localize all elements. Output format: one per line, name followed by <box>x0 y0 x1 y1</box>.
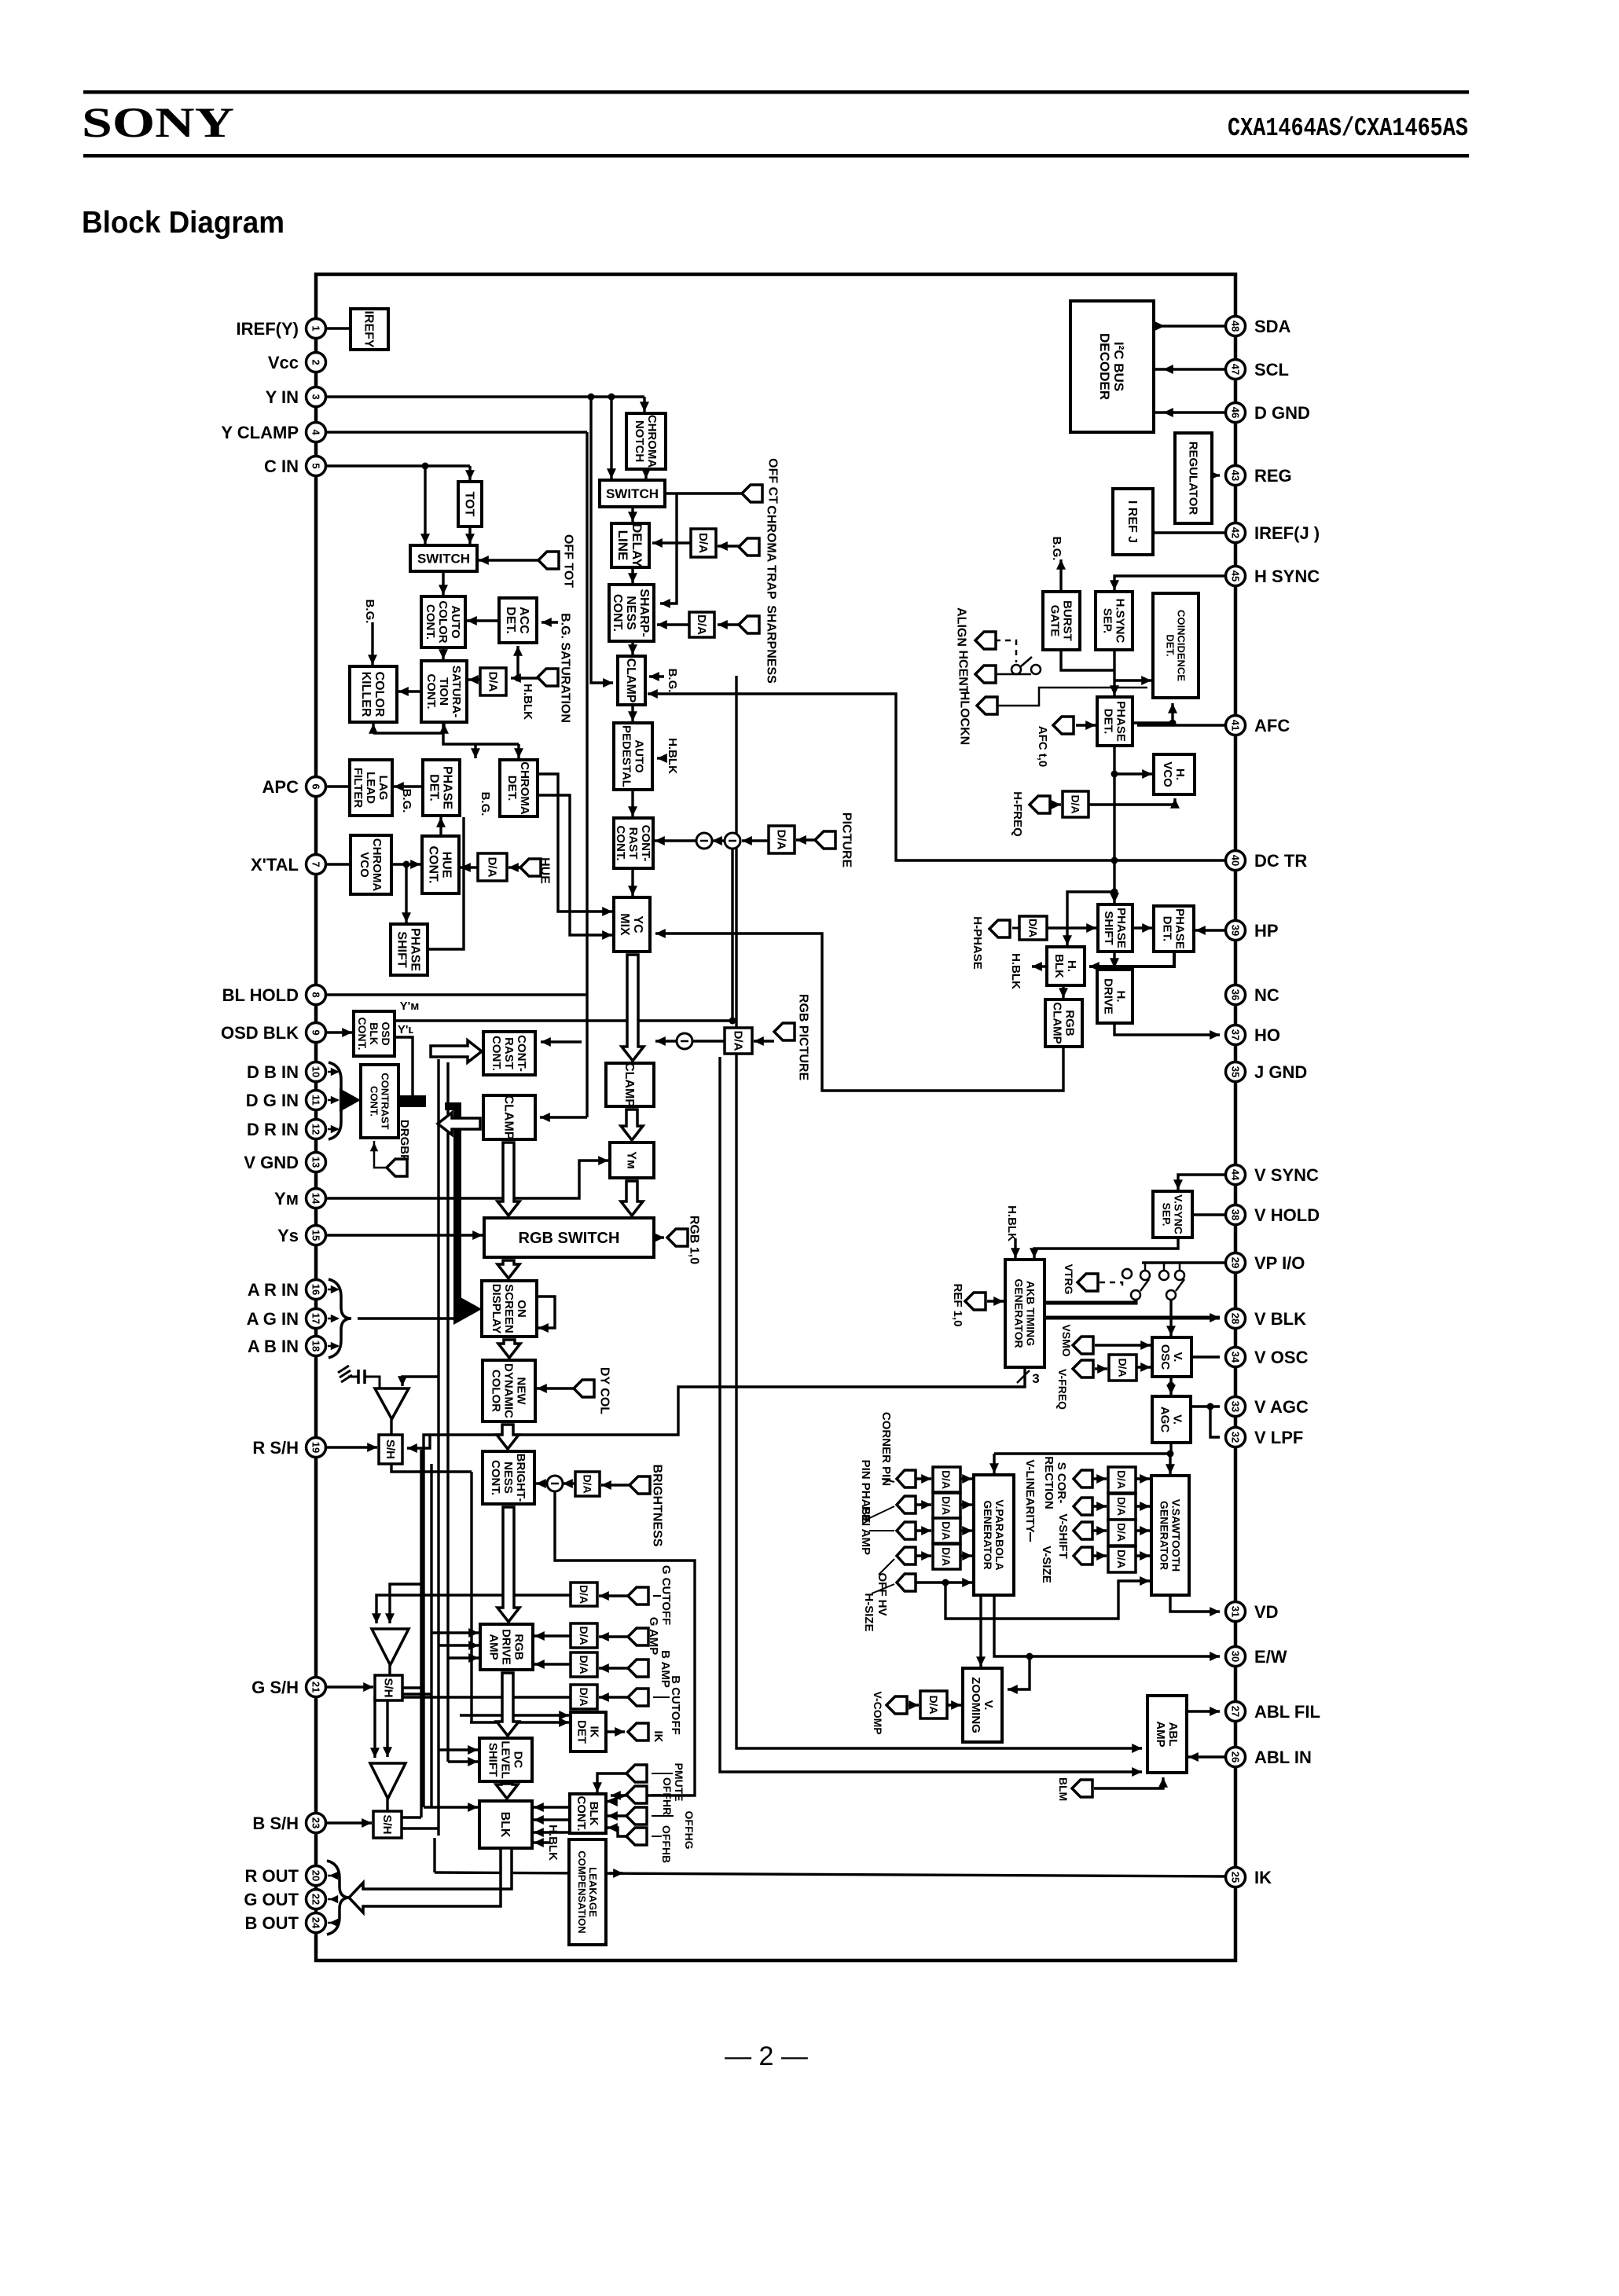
capacitor and ground near triangle 1 <box>338 1366 380 1388</box>
svg-text:G OUT: G OUT <box>244 1890 299 1909</box>
svg-text:AFC t,0: AFC t,0 <box>1036 726 1049 768</box>
wire da-parabola col1 3 <box>960 1551 972 1561</box>
wire Y IN bus <box>326 395 644 398</box>
pin 9 OSD BLK <box>221 1023 326 1043</box>
block D/A stack 2 <box>1108 1467 1136 1572</box>
wire B.G. into color killer <box>368 622 377 665</box>
svg-text:IK: IK <box>1254 1868 1272 1887</box>
svg-text:H.BLK: H.BLK <box>666 738 679 774</box>
wire dc tr loop <box>648 689 1228 860</box>
wire ym line <box>395 1019 732 1021</box>
svg-text:B.G. SATURATION: B.G. SATURATION <box>558 613 571 723</box>
input flag V-COMP <box>887 1696 907 1714</box>
block AUTO COLOR CONT <box>421 596 465 647</box>
block TOT <box>458 482 482 526</box>
wire ikdet in1 <box>460 1711 569 1720</box>
block AKB TIMING GENERATOR <box>1005 1260 1044 1367</box>
tick OFFHG <box>652 1815 674 1817</box>
svg-text:OFF HV: OFF HV <box>876 1573 889 1616</box>
pin 8 BL HOLD <box>222 985 326 1006</box>
leader corner pin <box>882 1479 894 1482</box>
wire pin14 YM <box>326 1156 608 1198</box>
block D/A v-comp <box>920 1691 947 1718</box>
pin 21 G S/H <box>251 1678 325 1698</box>
svg-text:ABLAMP: ABLAMP <box>1154 1721 1180 1747</box>
svg-text:G AMP: G AMP <box>647 1617 660 1656</box>
block BRIGHTNESS CONT <box>483 1451 534 1504</box>
wire DA to saturation cont <box>468 675 480 684</box>
svg-text:B.G.: B.G. <box>666 669 679 693</box>
input flag IK <box>628 1723 648 1740</box>
svg-text:32: 32 <box>1230 1432 1242 1443</box>
svg-text:V-LINEARITY: V-LINEARITY <box>1023 1459 1037 1532</box>
svg-text:14: 14 <box>310 1193 322 1205</box>
wire coincidence in <box>1114 676 1151 685</box>
svg-text:I²C BUSDECODER: I²C BUSDECODER <box>1097 333 1126 400</box>
wire into chroma det top <box>514 744 523 758</box>
pin 13 V GND <box>244 1153 325 1173</box>
wire b amp pent <box>599 1663 628 1673</box>
svg-text:S/H: S/H <box>381 1678 395 1697</box>
thick stub right of contrast cont D <box>399 1095 426 1107</box>
wire Y IN branch to switch <box>607 397 616 479</box>
block D/A hue <box>478 853 507 881</box>
input flag VSMO <box>1073 1337 1093 1354</box>
wire pmute to blk cont <box>593 1773 626 1792</box>
wire contrast2 right input <box>541 1037 582 1047</box>
block HUE CONT <box>422 836 459 893</box>
svg-text:30: 30 <box>1230 1651 1242 1662</box>
svg-text:40: 40 <box>1230 855 1242 866</box>
svg-text:Yᴍ: Yᴍ <box>274 1189 299 1209</box>
wire hblk into akb <box>1011 1238 1020 1258</box>
svg-text:44: 44 <box>1230 1169 1242 1181</box>
svg-text:H-SIZE: H-SIZE <box>862 1593 876 1631</box>
wire OFF TOT to switch <box>479 556 538 565</box>
input flag H-FREQ <box>1030 796 1050 813</box>
wire sum1 to contrast cont <box>655 836 696 845</box>
wire hp pin to phase det2 <box>1195 926 1224 935</box>
hollow arrow RGB SWITCH to OSD <box>497 1260 519 1278</box>
wire clamp mr right input <box>655 1036 677 1046</box>
wire dc shift in1 <box>439 1745 478 1755</box>
block NEW DYNAMIC COLOR <box>483 1360 535 1421</box>
block CLAMP top <box>618 656 645 705</box>
wire akb out thick <box>1044 1300 1136 1303</box>
wire da-parabola col1 2 <box>960 1526 972 1535</box>
block CHROMA NOTCH <box>626 413 666 469</box>
wire pin1 to IREFY <box>326 327 351 329</box>
svg-text:V.PARABOLAGENERATOR: V.PARABOLAGENERATOR <box>982 1499 1006 1570</box>
wire offhg to blk cont <box>608 1811 626 1821</box>
wire hblk into blk <box>534 1838 550 1847</box>
svg-text:TOT: TOT <box>462 492 475 517</box>
bus v9 <box>720 1057 1142 1777</box>
wire abl in to abl <box>1188 1752 1224 1762</box>
wire sh2 out2 <box>402 1693 431 1695</box>
wire switch to auto color cont <box>439 571 448 595</box>
pin 30 E/W <box>1226 1647 1287 1667</box>
svg-text:38: 38 <box>1230 1209 1242 1220</box>
block BLK <box>479 1801 532 1848</box>
wire rgb drive in3 <box>448 1653 479 1663</box>
pin 38 V HOLD <box>1226 1205 1320 1226</box>
wire phase det coincidence <box>1133 703 1177 723</box>
pin 45 H SYNC <box>1226 567 1320 587</box>
block V PARABOLA GENERATOR <box>974 1475 1014 1595</box>
svg-text:19: 19 <box>310 1442 322 1453</box>
svg-text:13: 13 <box>310 1157 322 1168</box>
wire rgb drive in1 <box>431 1628 479 1638</box>
wire scl <box>1154 368 1224 370</box>
svg-text:D G IN: D G IN <box>246 1091 299 1110</box>
block DELAY LINE <box>611 523 649 568</box>
wire da-parabola col1 1 <box>960 1500 972 1509</box>
svg-text:APC: APC <box>262 777 299 797</box>
hollow arrow OSD to NDC <box>498 1340 520 1358</box>
wire abl to abl fil <box>1187 1707 1220 1716</box>
wire hblk top feed <box>1063 892 1114 945</box>
input flag RGB 1,0 <box>667 1216 700 1264</box>
svg-text:21: 21 <box>310 1682 322 1693</box>
block LEAKAGE COMPENSATION <box>569 1839 606 1945</box>
svg-text:G S/H: G S/H <box>251 1678 299 1697</box>
block ACC DET <box>499 598 537 643</box>
svg-text:PICTURE: PICTURE <box>839 812 853 868</box>
wire parabola to zooming <box>976 1595 986 1667</box>
svg-text:CONT-RASTCONT.: CONT-RASTCONT. <box>614 825 652 862</box>
wire pin-da col2 2 <box>1092 1526 1107 1535</box>
wire da-sawtooth col2 2 <box>1136 1526 1150 1535</box>
svg-text:R S/H: R S/H <box>252 1438 299 1458</box>
pentagon column 2 group <box>1074 1470 1092 1564</box>
block I2C BUS DECODER <box>1070 301 1154 432</box>
wire vagc to pin32 <box>1210 1407 1220 1437</box>
wire switch to v osc <box>1166 1300 1176 1336</box>
svg-text:B S/H: B S/H <box>252 1814 299 1833</box>
svg-text:18: 18 <box>310 1341 322 1352</box>
brace RGB OUT <box>327 1861 350 1935</box>
svg-text:1: 1 <box>310 325 322 331</box>
tick OFFHR <box>652 1794 661 1795</box>
input flag PICTURE <box>815 812 853 868</box>
block PHASE DET left <box>423 760 460 816</box>
wire phase det to lag lead <box>394 782 423 791</box>
wire tri1 right top feed <box>398 1376 439 1386</box>
block CONTRAST CONT 1 <box>614 818 653 868</box>
wire vsync sep to vhold <box>1192 1213 1224 1216</box>
svg-text:Yᴍ: Yᴍ <box>624 1151 637 1169</box>
wire hblk into auto pedestal <box>657 754 667 763</box>
wire vsync sep down to akb <box>1030 1238 1178 1258</box>
block S/H 1 <box>379 1435 402 1464</box>
svg-text:D/A: D/A <box>578 1655 590 1674</box>
bus v8 <box>736 676 1142 1753</box>
tick V-LINEARITY <box>1030 1532 1031 1542</box>
pin 42 IREF(J ) <box>1226 523 1320 544</box>
wire blk in1 <box>424 1803 478 1812</box>
svg-text:12: 12 <box>310 1124 322 1135</box>
wire da hfreq to hvco <box>1089 798 1180 809</box>
wire da hphase to phase shift <box>1047 923 1096 933</box>
svg-text:SWITCH: SWITCH <box>417 551 470 566</box>
svg-text:4: 4 <box>310 429 322 435</box>
svg-text:V LPF: V LPF <box>1254 1428 1303 1447</box>
svg-text:H.BLK: H.BLK <box>1009 953 1022 989</box>
pin 22 G OUT <box>244 1890 325 1910</box>
pin 12 D R IN <box>247 1120 326 1140</box>
header top rule <box>83 90 1469 94</box>
block IREFY <box>351 309 388 350</box>
wire da3 to rgb drive <box>534 1660 571 1669</box>
wire g amp pent <box>599 1632 628 1641</box>
svg-text:IREF(Y): IREF(Y) <box>237 319 299 339</box>
block D/A rgb picture <box>725 1028 752 1054</box>
block IK DET <box>571 1712 606 1751</box>
svg-text:23: 23 <box>310 1817 322 1828</box>
block PHASE SHIFT left <box>391 924 428 975</box>
block D/A sharpness <box>689 612 714 637</box>
wire v blk thick <box>1044 1313 1220 1322</box>
svg-text:24: 24 <box>310 1917 322 1929</box>
input flag BLM <box>1072 1780 1092 1797</box>
svg-text:D/A: D/A <box>1115 1550 1128 1568</box>
wire brightness pentagon to DA <box>601 1480 630 1490</box>
svg-text:OFF CT: OFF CT <box>765 458 779 504</box>
input flag BG SATURATION <box>538 613 571 723</box>
wire h-size branch <box>945 1576 1150 1619</box>
block D/A h-freq <box>1063 791 1089 817</box>
pin 11 D G IN <box>246 1091 326 1111</box>
block REGULATOR <box>1175 433 1212 523</box>
svg-text:HP: HP <box>1254 921 1279 941</box>
wire off ct line <box>665 492 742 494</box>
wire hsync bus <box>1110 576 1224 590</box>
pin 20 R OUT <box>245 1866 326 1887</box>
wire hsync sep down <box>1110 650 1119 695</box>
input flag VTRG <box>1077 1274 1098 1291</box>
block D/A h-phase <box>1019 916 1047 940</box>
block D/A picture <box>769 826 795 853</box>
wire zooming right in <box>1008 1656 1030 1694</box>
wire pin-da col2 1 <box>1092 1502 1107 1511</box>
wire TOT to switch <box>465 526 475 544</box>
pin 31 VD <box>1226 1602 1279 1623</box>
input flag ALIGN <box>954 607 996 649</box>
wire irefj to pin <box>1153 531 1224 534</box>
wire chroma vco to hue cont <box>391 860 420 869</box>
pin 36 NC <box>1226 985 1279 1006</box>
svg-text:Y IN: Y IN <box>266 387 299 407</box>
block CONTRAST CONT D <box>361 1065 398 1138</box>
svg-text:16: 16 <box>310 1284 322 1295</box>
svg-text:DY COL: DY COL <box>597 1367 611 1414</box>
svg-text:H.BLK: H.BLK <box>521 684 534 720</box>
wire to h vco <box>1114 769 1152 779</box>
sum junction 3 <box>677 1033 692 1049</box>
input flag REF 10 <box>965 1293 986 1310</box>
block H SYNC SEP <box>1096 592 1133 650</box>
wire chroma notch to switch <box>641 468 651 479</box>
svg-text:B.G.: B.G. <box>1050 537 1063 561</box>
block CHROMA VCO <box>351 835 391 894</box>
svg-text:D/A: D/A <box>582 1474 594 1493</box>
wire pin19 RS/H <box>326 1443 377 1452</box>
svg-text:V-COMP: V-COMP <box>872 1691 884 1734</box>
wire C IN bus <box>326 464 470 467</box>
svg-text:V BLK: V BLK <box>1254 1309 1306 1329</box>
input flag G CUTOFF <box>628 1587 648 1605</box>
hollow arrow RGB DRIVE to DC LEVEL <box>497 1673 519 1736</box>
wire a rgb in join <box>358 1317 460 1319</box>
wire vosc to vagc <box>1166 1377 1176 1395</box>
svg-text:BL HOLD: BL HOLD <box>222 985 299 1005</box>
svg-text:D B IN: D B IN <box>247 1062 299 1082</box>
svg-text:V-SHIFT: V-SHIFT <box>1056 1513 1070 1559</box>
wire pin9 OSD BLK <box>326 1028 352 1037</box>
svg-text:CXA1464AS/CXA1465AS: CXA1464AS/CXA1465AS <box>1228 114 1468 143</box>
svg-text:H SYNC: H SYNC <box>1254 567 1320 586</box>
input flag B CUTOFF <box>628 1689 648 1706</box>
svg-text:Block Diagram: Block Diagram <box>82 206 285 240</box>
thick arrow into contrast cont D <box>340 1088 361 1112</box>
bus v7 akb timing <box>424 1367 1025 1807</box>
pin 18 A B IN <box>248 1337 326 1357</box>
svg-text:D/A: D/A <box>731 1031 744 1051</box>
svg-text:— 2 —: — 2 — <box>725 2041 808 2071</box>
svg-text:V GND: V GND <box>244 1153 299 1172</box>
svg-text:PHASESHIFT: PHASESHIFT <box>395 928 421 971</box>
wire C IN branch to switch <box>420 466 430 544</box>
svg-text:X'TAL: X'TAL <box>251 855 299 875</box>
wire chroma trap pent to DA <box>718 541 739 551</box>
wire auto color to saturation <box>439 647 448 659</box>
svg-text:E/W: E/W <box>1254 1647 1287 1667</box>
IC outline border <box>316 274 1235 1960</box>
wire pin-da col1 2 <box>916 1526 931 1535</box>
wire dy col to ndc <box>537 1384 574 1393</box>
svg-text:B.G.: B.G. <box>400 789 413 813</box>
wire b cutoff pent <box>599 1693 628 1702</box>
svg-text:D/A: D/A <box>1027 919 1040 937</box>
wire vfreq pent to da <box>1095 1364 1107 1374</box>
block S/H 2 <box>375 1675 402 1700</box>
pin 43 REG <box>1226 466 1292 486</box>
svg-text:33: 33 <box>1230 1401 1242 1412</box>
svg-text:V-FREQ: V-FREQ <box>1056 1369 1069 1410</box>
header bottom rule <box>83 154 1469 158</box>
hollow arrow CLAMP-ml down <box>497 1142 519 1216</box>
wire dgnd <box>1154 411 1224 413</box>
svg-text:20: 20 <box>310 1870 322 1881</box>
hollow arrow YM to RGB SWITCH <box>621 1181 643 1216</box>
block ON SCREEN DISPLAY <box>482 1281 537 1337</box>
input flag HCENT <box>956 650 996 693</box>
leader pin phase <box>865 1506 894 1520</box>
wire burst gate link <box>1061 650 1114 670</box>
wire switch to delay line <box>628 507 637 522</box>
wire sharpness pent to DA <box>718 620 739 629</box>
amplifier triangle 3 <box>370 1763 406 1799</box>
wire ik det to pentagon <box>606 1727 625 1737</box>
input flag H-PHASE <box>989 920 1010 937</box>
svg-text:CLAMP: CLAMP <box>624 658 637 703</box>
wire generator feed bus <box>994 1452 1171 1454</box>
block V SYNC SEP <box>1153 1191 1192 1238</box>
wire DA to sum3 <box>692 1040 725 1042</box>
wire rgb switch out <box>654 1233 664 1242</box>
pin 34 V OSC <box>1226 1348 1309 1368</box>
svg-text:B.G.: B.G. <box>363 600 376 624</box>
block V SAWTOOTH GENERATOR <box>1151 1476 1189 1595</box>
svg-text:HCENT: HCENT <box>956 650 969 693</box>
svg-text:VP I/O: VP I/O <box>1254 1253 1305 1273</box>
wire sda <box>1154 325 1224 327</box>
block D/A sharp delay <box>691 529 716 557</box>
block CLAMP mid-right <box>606 1062 654 1107</box>
block AUTO PEDESTAL <box>614 723 652 790</box>
block CONTRAST CONT 2 <box>483 1032 535 1075</box>
switch contacts near vp io <box>1122 1263 1184 1300</box>
wire rgb drive in2 <box>439 1641 479 1650</box>
wire into v sawtooth <box>1166 1454 1175 1474</box>
block RGB SWITCH <box>484 1218 654 1257</box>
svg-text:SONY: SONY <box>82 99 234 146</box>
pin 19 R S/H <box>252 1438 325 1458</box>
wire g cutoff da line <box>372 1595 571 1623</box>
svg-text:D/A: D/A <box>486 672 499 692</box>
svg-text:5: 5 <box>310 463 322 468</box>
wire sh2 feedback down <box>383 1700 392 1757</box>
wire Y IN into chroma notch <box>640 397 649 412</box>
pin 40 DC TR <box>1226 851 1308 871</box>
wire da vfreq to vosc <box>1136 1363 1151 1372</box>
svg-text:V AGC: V AGC <box>1254 1397 1309 1417</box>
bus v2 <box>430 1464 432 1807</box>
sum junction brightness <box>547 1476 563 1491</box>
svg-text:D/A: D/A <box>578 1626 590 1645</box>
input flag RGB PICTURE <box>774 994 809 1081</box>
wire brightness sum to cont <box>536 1479 547 1488</box>
svg-text:3: 3 <box>310 394 322 399</box>
wire pin6 APC <box>326 785 350 787</box>
input flag OFFHR <box>626 1786 647 1803</box>
wire ref10 into akb <box>987 1297 1004 1306</box>
wire clamp to auto pedestal <box>628 705 637 721</box>
svg-text:COLORKILLER: COLORKILLER <box>359 672 386 717</box>
wire sh2 out <box>402 1686 421 1689</box>
svg-text:IK: IK <box>652 1731 665 1743</box>
wire saturation to color killer <box>398 687 421 696</box>
wire b cutoff da line <box>370 1697 571 1758</box>
wire bg saturation to DA <box>511 673 521 683</box>
svg-text:43: 43 <box>1230 470 1242 481</box>
wire Y IN vertical to clamp <box>591 397 613 688</box>
wire ik vertical <box>433 1838 435 1872</box>
pin 2 Vcc <box>268 353 326 373</box>
input flag HUE <box>520 857 551 884</box>
block D/A g cutoff <box>571 1583 597 1606</box>
wire pin-da col2 3 <box>1092 1551 1107 1561</box>
pin 47 SCL <box>1226 360 1290 380</box>
svg-text:6: 6 <box>310 783 322 789</box>
wire pin-da col1 3 <box>916 1551 931 1561</box>
svg-text:D/A: D/A <box>485 857 498 878</box>
svg-text:ABL FIL: ABL FIL <box>1254 1702 1320 1722</box>
svg-text:SHARPNESS: SHARPNESS <box>764 605 777 684</box>
svg-text:AUTOCOLORCONT.: AUTOCOLORCONT. <box>424 600 462 643</box>
wire da-sawtooth col2 3 <box>1136 1551 1150 1561</box>
